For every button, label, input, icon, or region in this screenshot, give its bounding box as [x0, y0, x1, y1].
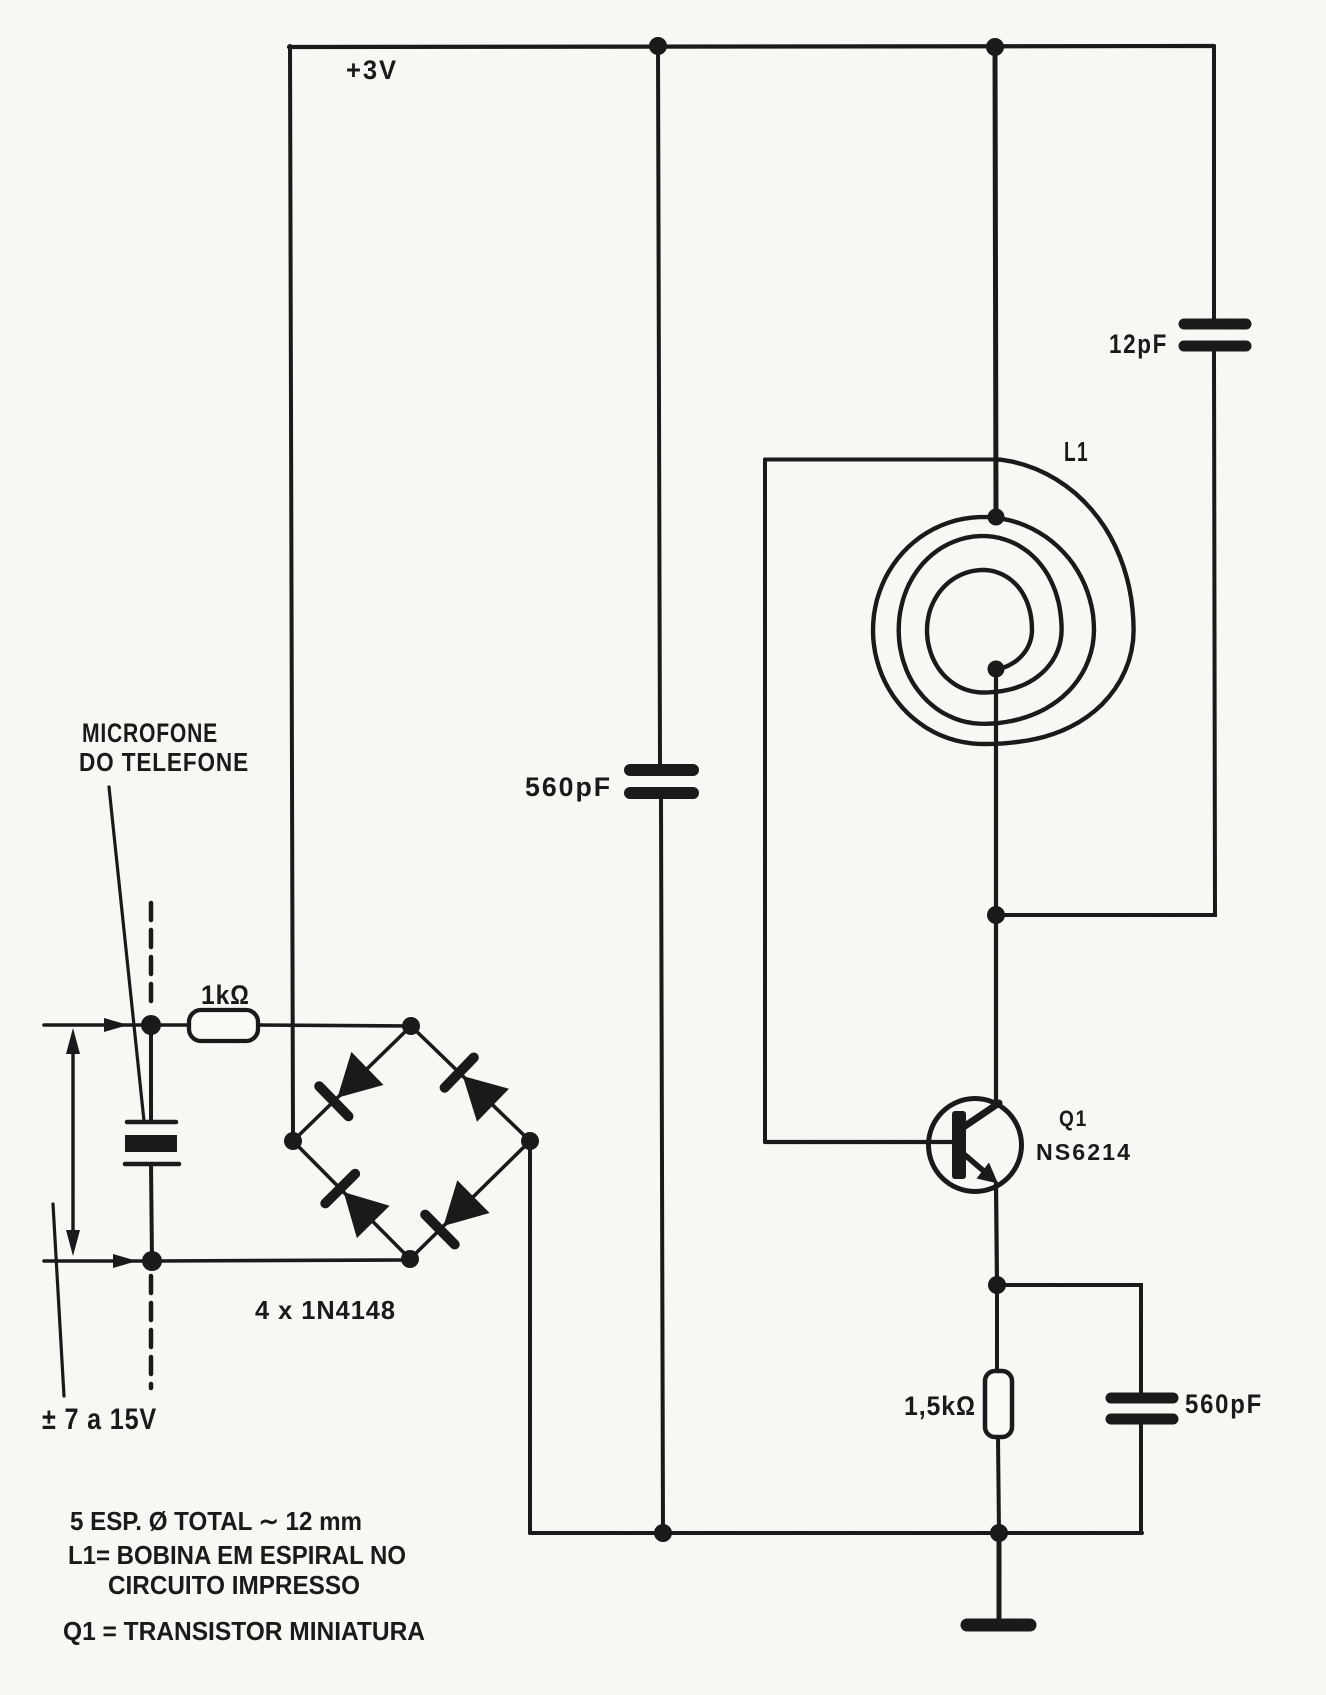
diode D2 triangle (top-right edge)	[463, 1076, 509, 1122]
wire 12pF lower drop	[996, 352, 1215, 915]
svg-text:± 7 a 15V: ± 7 a 15V	[42, 1403, 157, 1436]
capacitor C 560pF middle, bottom plate	[630, 787, 693, 799]
wire emitter junction to right cap	[997, 1285, 1141, 1394]
dashed phone-line boundary lower	[149, 1276, 154, 1388]
svg-text:4 x 1N4148: 4 x 1N4148	[255, 1295, 396, 1325]
microphone capsule bottom plate	[125, 1162, 179, 1167]
node rail / ground stem	[990, 1524, 1008, 1542]
capacitor C 560pF right, top plate	[1111, 1393, 1173, 1404]
diode D4 triangle (bottom-right edge)	[444, 1180, 490, 1226]
wire resistor bottom	[998, 1437, 999, 1533]
node mic top	[141, 1015, 161, 1035]
dimension arrowhead down	[66, 1230, 80, 1256]
wire emitter down	[996, 1183, 997, 1285]
diode bridge edge top-right	[411, 1026, 530, 1141]
dashed phone-line boundary upper	[149, 903, 154, 1010]
wire emitter junction to resistor	[995, 1285, 999, 1371]
wire 560pF lower column	[661, 799, 663, 1533]
capacitor C 560pF right, bottom plate	[1111, 1414, 1173, 1425]
capacitor C 12pF top plate	[1184, 319, 1246, 330]
wire capsule to bottom node	[151, 1164, 152, 1261]
capacitor C 12pF bottom plate	[1184, 341, 1246, 352]
arrowhead input bottom	[113, 1254, 137, 1268]
svg-text:560pF: 560pF	[525, 772, 612, 802]
diode D2 cathode bar	[445, 1058, 474, 1088]
microphone capsule crystal slab	[125, 1135, 177, 1152]
wire L1 outer arc to base: top horizontal	[765, 458, 994, 462]
wire 1k to bridge top	[258, 1025, 411, 1026]
wire L1 center to collector	[994, 669, 998, 1102]
node bridge right corner	[521, 1132, 539, 1150]
resistor R 1k body	[189, 1010, 258, 1041]
diode bridge edge top-left	[293, 1026, 411, 1141]
svg-text:Q1: Q1	[1059, 1106, 1088, 1131]
wire mic bottom to bridge bottom	[152, 1260, 410, 1261]
node emitter junction	[988, 1276, 1006, 1294]
wire mic top with input arrow	[44, 1023, 189, 1027]
node L1 center tap	[988, 661, 1005, 678]
dimension arrowhead up	[66, 1028, 80, 1054]
svg-text:5 ESP. Ø TOTAL ∼ 12 mm: 5 ESP. Ø TOTAL ∼ 12 mm	[70, 1506, 362, 1536]
wire mic bottom with input arrow	[44, 1259, 152, 1263]
transistor Q1 emitter arrowhead	[977, 1163, 999, 1184]
node rail / 560pF column	[654, 1524, 672, 1542]
diode bridge edge bottom-right	[410, 1141, 530, 1259]
wire ground stem	[997, 1533, 1002, 1619]
svg-text:12pF: 12pF	[1109, 329, 1168, 359]
svg-text:DO TELEFONE: DO TELEFONE	[79, 747, 249, 777]
node junction top rail / 560pF column	[649, 37, 667, 55]
dimension line vertical with two arrowheads	[71, 1036, 74, 1248]
svg-text:+3V: +3V	[346, 55, 398, 85]
node bridge bottom corner	[401, 1250, 419, 1268]
diode D3 cathode bar	[325, 1174, 355, 1204]
diode D3 triangle (bottom-left edge)	[344, 1192, 390, 1238]
transistor Q1 collector stroke	[965, 1103, 999, 1126]
wire +3V left drop to bridge	[290, 46, 293, 1141]
microphone capsule top plate	[127, 1120, 176, 1125]
wire mic node to capsule	[149, 1025, 153, 1121]
transistor Q1 emitter stroke	[965, 1155, 986, 1173]
arrowhead input top	[104, 1018, 128, 1032]
inductor L1 spiral coil	[873, 460, 1134, 745]
wire base loop left vertical	[763, 460, 767, 1143]
svg-text:NS6214: NS6214	[1036, 1139, 1132, 1165]
wire 560pF upper column	[658, 46, 660, 765]
wire bridge right corner drop	[528, 1141, 532, 1533]
diode D1 triangle (top-left edge)	[337, 1052, 383, 1098]
svg-text:1kΩ: 1kΩ	[201, 980, 250, 1010]
transistor Q1 body circle	[929, 1099, 1022, 1192]
diode D4 cathode bar	[425, 1215, 455, 1245]
leader line from MICROFONE label to capsule	[109, 787, 144, 1121]
capacitor C 560pF middle, top plate	[630, 764, 693, 776]
svg-text:L1= BOBINA EM ESPIRAL NO: L1= BOBINA EM ESPIRAL NO	[68, 1540, 406, 1570]
node bridge top corner	[402, 1017, 420, 1035]
node collector / 12pF branch junction	[987, 906, 1005, 924]
svg-text:L1: L1	[1064, 436, 1089, 467]
diode D1 cathode bar	[319, 1086, 348, 1116]
svg-text:560pF: 560pF	[1185, 1389, 1263, 1419]
wire 12pF branch right drop	[1212, 46, 1216, 319]
transistor Q1 base bar	[952, 1111, 966, 1179]
extension line lower left	[53, 1204, 64, 1396]
wire bottom ground rail	[530, 1531, 1142, 1535]
node mic bottom	[142, 1251, 162, 1271]
svg-text:MICROFONE: MICROFONE	[82, 718, 218, 748]
svg-text:CIRCUITO IMPRESSO: CIRCUITO IMPRESSO	[108, 1570, 360, 1600]
resistor R 1,5k body	[985, 1371, 1012, 1437]
node bridge left corner	[284, 1132, 302, 1150]
svg-text:1,5kΩ: 1,5kΩ	[904, 1391, 976, 1421]
node junction top rail / L1 column	[986, 38, 1004, 56]
wire base horizontal into Q1	[765, 1140, 954, 1144]
wire right cap bottom drop	[1139, 1424, 1143, 1533]
wire L1 feed from rail	[995, 46, 996, 517]
ground symbol bar	[967, 1619, 1030, 1632]
svg-text:Q1 = TRANSISTOR MINIATURA: Q1 = TRANSISTOR MINIATURA	[63, 1616, 425, 1646]
node L1 outer ring tap	[988, 509, 1005, 526]
wire +3V top rail	[289, 46, 1214, 47]
diode bridge edge bottom-left	[293, 1141, 410, 1259]
